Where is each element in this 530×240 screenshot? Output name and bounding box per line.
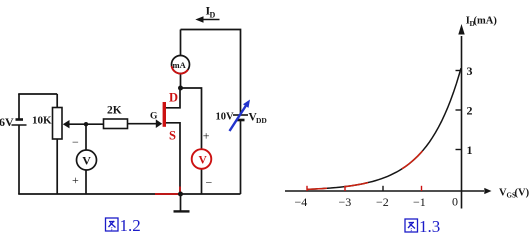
svg-text:−: −: [72, 135, 79, 149]
svg-text:1: 1: [467, 143, 473, 157]
svg-text:0: 0: [452, 195, 458, 209]
svg-text:+: +: [72, 173, 79, 187]
svg-text:(V): (V): [515, 188, 530, 199]
svg-text:−1: −1: [413, 195, 426, 209]
svg-text:−4: −4: [295, 195, 308, 209]
svg-text:3: 3: [467, 64, 473, 78]
svg-text:S: S: [169, 129, 176, 143]
svg-text:1.2: 1.2: [120, 216, 141, 235]
svg-text:G: G: [150, 112, 158, 122]
svg-text:D: D: [210, 11, 216, 20]
svg-text:+: +: [203, 129, 210, 143]
svg-text:(mA): (mA): [474, 16, 498, 27]
svg-text:6V: 6V: [0, 115, 14, 129]
svg-text:V: V: [199, 155, 208, 167]
svg-text:10V: 10V: [216, 112, 235, 123]
svg-text:D: D: [169, 91, 178, 105]
svg-text:1.3: 1.3: [419, 217, 440, 235]
svg-text:10K: 10K: [32, 115, 52, 127]
svg-text:−2: −2: [376, 195, 389, 209]
svg-text:2K: 2K: [107, 105, 122, 117]
svg-text:mA: mA: [173, 60, 187, 70]
svg-text:2: 2: [467, 104, 473, 118]
svg-text:−3: −3: [339, 195, 352, 209]
svg-text:−: −: [206, 176, 213, 190]
svg-text:V: V: [82, 154, 91, 168]
svg-text:DD: DD: [256, 116, 267, 125]
